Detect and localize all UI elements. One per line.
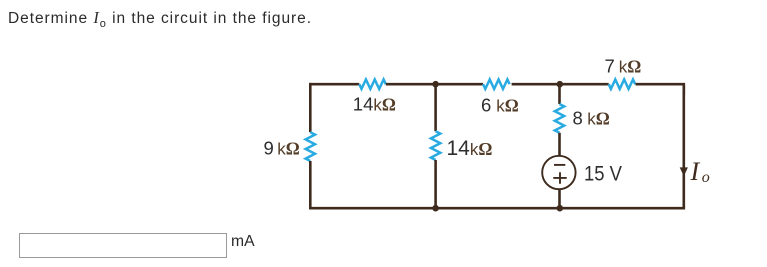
svg-text:I: I xyxy=(690,157,701,186)
svg-text:8kΩ: 8kΩ xyxy=(573,108,610,129)
wire: top segment between R2 and node B xyxy=(512,83,609,86)
current arrow Io (arrowhead on right wire) xyxy=(680,167,688,176)
wire: bottom rail xyxy=(309,207,685,210)
voltage source V1 15 V (circle) xyxy=(542,156,575,189)
wire: below source V1 xyxy=(558,189,561,208)
node: junction dot top at source branch xyxy=(557,81,564,88)
unit label mA xyxy=(231,233,255,251)
node: junction dot top-middle xyxy=(432,81,439,88)
wire: middle branch lower xyxy=(434,160,437,208)
V1 minus sign xyxy=(554,164,565,166)
svg-text:15 V: 15 V xyxy=(584,161,623,185)
resistor R6 8kΩ (source branch vertical) xyxy=(555,104,564,133)
resistor R2 6kΩ (top-middle horizontal) xyxy=(483,79,510,88)
resistor R3 7kΩ (top-right horizontal) xyxy=(609,79,635,88)
wire: middle branch upper xyxy=(434,84,437,131)
wire: between R6 and source V1 xyxy=(558,133,561,157)
answer input box xyxy=(19,233,227,258)
wire: top-left segment xyxy=(309,83,359,86)
resistor R1 14kΩ (top-left horizontal) xyxy=(359,79,386,88)
svg-text:14kΩ: 14kΩ xyxy=(353,94,396,115)
svg-text:9kΩ: 9kΩ xyxy=(264,137,300,158)
wire: top-right segment to corner xyxy=(636,84,684,95)
node: junction dot bottom-middle xyxy=(432,205,439,212)
question text xyxy=(8,8,312,28)
svg-text:o: o xyxy=(702,169,710,186)
V1 plus sign xyxy=(553,172,566,184)
wire: top segment between R1 and R2 xyxy=(386,83,483,86)
svg-text:6kΩ: 6kΩ xyxy=(481,94,519,115)
svg-text:7kΩ: 7kΩ xyxy=(605,55,642,76)
wire: source branch upper xyxy=(558,84,561,104)
svg-text:14kΩ: 14kΩ xyxy=(447,137,493,160)
resistor R5 14kΩ (middle vertical) xyxy=(431,131,440,160)
node: junction dot bottom at source branch xyxy=(557,205,564,212)
wire: left vertical lower xyxy=(309,161,312,210)
wire: left vertical upper xyxy=(309,83,312,132)
resistor R4 9kΩ (left vertical) xyxy=(306,132,315,161)
wire: right vertical xyxy=(682,84,685,208)
